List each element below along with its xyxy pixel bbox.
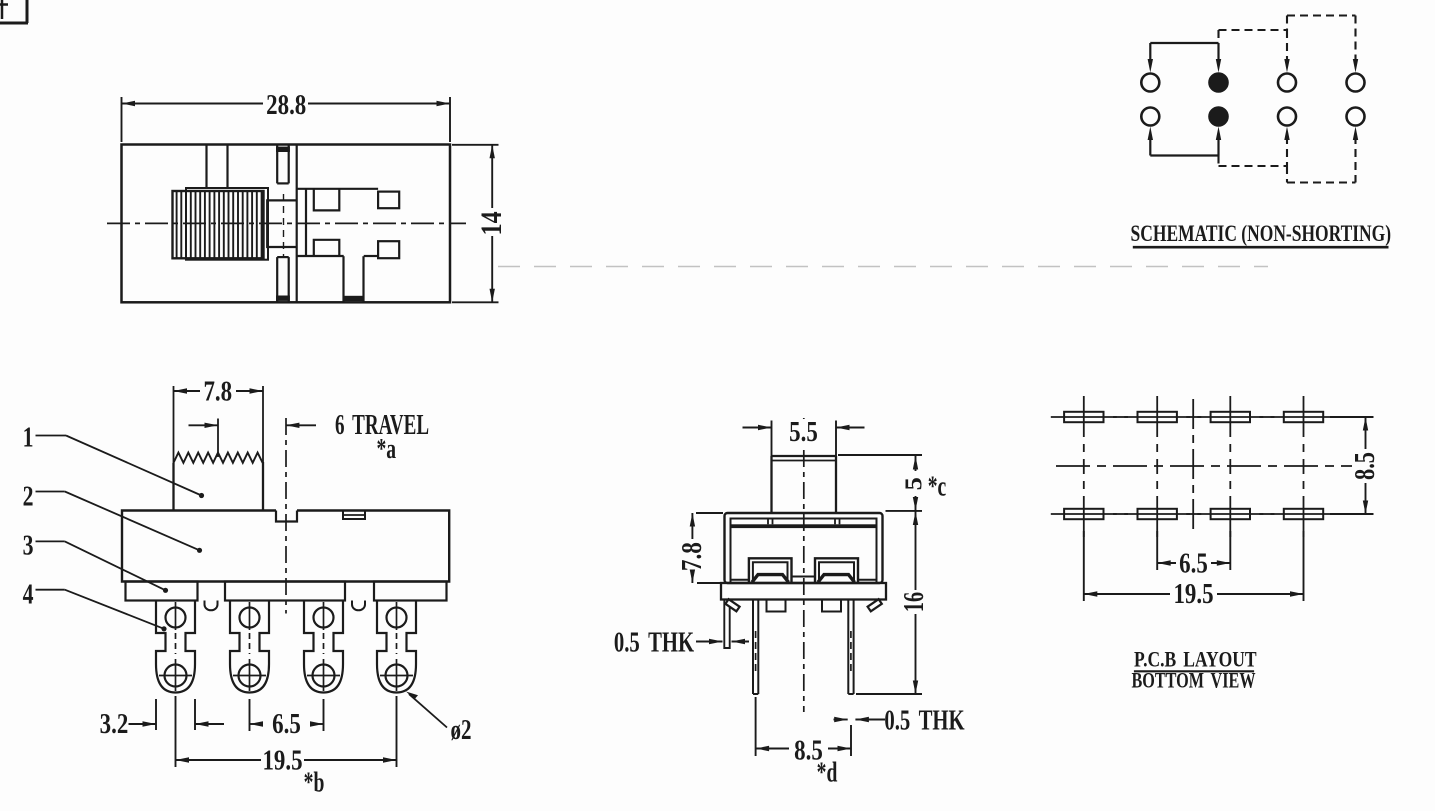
svg-text:19.5: 19.5: [262, 744, 302, 776]
front view: knob sides / extension lines: [174, 386, 264, 511]
side view: contact chamber right: [815, 558, 858, 582]
svg-text:*c: *c: [928, 471, 947, 502]
svg-text:28.8: 28.8: [266, 89, 306, 121]
pcb column 1 centerline: [1083, 396, 1085, 537]
dimension 19.5 (front): [176, 696, 397, 799]
front view: locating peg left: [205, 601, 218, 611]
schematic contact: terminal 4B: [1347, 108, 1365, 126]
side view: contact base bridge: [731, 577, 876, 580]
schematic: dashed position box 1: [1219, 30, 1290, 166]
top view: weld bar stem: [345, 296, 363, 301]
top view: knob back-plate: [186, 188, 268, 260]
dimension 6.5 (pcb): [1157, 531, 1230, 579]
front view: terminal pin 1: [156, 601, 195, 693]
pcb pad row 1 col 3: [1197, 412, 1263, 422]
pcb pad row 1 col 2: [1124, 412, 1190, 422]
svg-text:1: 1: [23, 421, 34, 454]
schematic contact: common 2B (filled): [1210, 108, 1228, 126]
dimension 14: [452, 145, 507, 302]
schematic: dashed position box 2: [1287, 16, 1358, 183]
dimension diameter 2 leader: [406, 692, 471, 746]
top view: contact carrier rails: [277, 145, 297, 303]
svg-text:*d: *d: [817, 757, 838, 788]
pcb pad row 1 col 1: [1051, 412, 1117, 422]
pcb column 2 centerline: [1156, 396, 1158, 537]
front view: top vent slot: [343, 511, 365, 520]
pcb column 4 centerline: [1303, 396, 1305, 537]
top view: terminal stem: [344, 256, 364, 302]
dimension 28.8: [122, 89, 451, 142]
dimension 7.8 (side): [676, 513, 723, 583]
side view: plastic peg right: [822, 600, 841, 612]
side view: bent foot right: [868, 599, 882, 611]
svg-text:2: 2: [23, 480, 34, 513]
svg-text:8.5: 8.5: [1350, 452, 1381, 480]
side view: vertical centerline: [803, 418, 805, 712]
pcb horizontal axis: [1056, 465, 1352, 467]
top view: horizontal centerline: [107, 222, 466, 224]
front view: terminal pin 4: [377, 601, 416, 693]
pcb layout title: [1131, 648, 1257, 694]
schematic: solid link bottom (pole 2): [1148, 127, 1222, 156]
top view: actuator stem: [207, 145, 228, 189]
pcb pad row 1 col 4: [1271, 412, 1337, 422]
front view: terminal pin 3: [304, 601, 343, 693]
front view: body outline: [122, 511, 449, 582]
top view: knurled knob: [173, 191, 264, 258]
svg-text:ø2: ø2: [451, 715, 472, 746]
svg-text:SCHEMATIC (NON-SHORTING): SCHEMATIC (NON-SHORTING): [1131, 222, 1392, 247]
front view: base flange blocks: [126, 582, 447, 601]
side view: knob: [772, 456, 837, 513]
svg-text:19.5: 19.5: [1173, 577, 1213, 609]
top view: carrier dashed centerline: [283, 194, 285, 256]
svg-text:16: 16: [899, 592, 930, 612]
front view: terminal pin 2: [230, 601, 269, 693]
front view: travel position mark: [217, 419, 219, 458]
side view: pin left: [753, 600, 758, 695]
side view: pin right: [848, 600, 853, 695]
svg-text:5: 5: [901, 477, 927, 490]
side view: metal cover edge: [731, 519, 876, 529]
dimension 5.5: [743, 415, 865, 456]
part label 4 leader: [23, 578, 167, 632]
schematic title: [1131, 222, 1392, 247]
side view: bent foot left: [725, 599, 739, 611]
svg-text:BOTTOM VIEW: BOTTOM VIEW: [1131, 669, 1255, 693]
svg-text:5.5: 5.5: [789, 415, 818, 447]
svg-text:3.2: 3.2: [100, 707, 129, 739]
front view: top center notch: [276, 511, 297, 522]
faint horizontal scan artifact line: [498, 266, 1268, 268]
svg-text:*b: *b: [304, 767, 325, 798]
part label 1 leader: [23, 421, 205, 499]
top view: contact plate cross: [297, 189, 400, 258]
svg-text:0.5 THK: 0.5 THK: [614, 628, 694, 659]
side view: base flange: [721, 583, 886, 600]
side view: body inner wall: [731, 519, 877, 584]
dimension 7.8 (front): [174, 375, 264, 407]
schematic contact: terminal 3A: [1278, 74, 1296, 92]
svg-text:6.5: 6.5: [1179, 547, 1208, 579]
front view: knob serrated top: [174, 453, 263, 463]
schematic contact: terminal 4A: [1347, 74, 1365, 92]
top view: weld bar top: [276, 147, 290, 152]
dimension 3.2: [100, 699, 224, 740]
side view: contact chamber left: [749, 558, 792, 582]
top view: slider coupling bracket: [267, 200, 297, 247]
svg-text:*a: *a: [377, 434, 397, 465]
front view: vertical centerline: [285, 418, 287, 614]
schematic: solid link top (pole 1): [1148, 43, 1222, 73]
svg-text:7.8: 7.8: [676, 542, 708, 571]
dimension 8.5 (pcb): [1330, 417, 1381, 514]
dimension 0.5 THK left: [614, 628, 749, 659]
dimension 16: [856, 511, 930, 694]
dimension 6.5 (front): [250, 699, 324, 740]
svg-text:4: 4: [23, 578, 34, 611]
schematic contact: terminal 1B: [1141, 108, 1159, 126]
pcb pad row 2 axis gap dashes: [1113, 513, 1274, 515]
pcb central vertical axis: [1192, 399, 1194, 531]
pcb pad row 1 axis gap dashes: [1113, 416, 1274, 418]
dimension 19.5 (pcb): [1084, 531, 1304, 610]
pcb pad row 2 col 1: [1051, 509, 1117, 519]
dimension 0.5 THK right: [834, 706, 965, 737]
pcb pad row 2 col 2: [1124, 509, 1190, 519]
svg-text:3: 3: [23, 529, 34, 562]
side view: plastic peg left: [767, 600, 786, 612]
dimension 5 *c: [838, 455, 946, 511]
side view: frame tab 0.5 thk: [724, 600, 729, 649]
pcb column 3 centerline: [1229, 396, 1231, 537]
svg-text:0.5 THK: 0.5 THK: [884, 706, 964, 737]
dimension 6 TRAVEL: [189, 410, 430, 465]
schematic contact: terminal 3B: [1278, 108, 1296, 126]
drawing border corner box: [0, 0, 28, 23]
top view: weld bar bottom: [276, 296, 290, 301]
svg-text:6.5: 6.5: [272, 707, 301, 739]
top view: body outline: [122, 145, 451, 303]
svg-text:14: 14: [474, 211, 507, 235]
schematic contact: common 2A (filled): [1210, 74, 1228, 92]
side view: body outer shell: [725, 513, 883, 583]
front view: locating peg right: [352, 601, 365, 611]
part label 3 leader: [23, 529, 169, 593]
schematic contact: terminal 1A: [1141, 74, 1159, 92]
pcb pad row 2 col 3: [1197, 509, 1263, 519]
pcb pad row 2 col 4: [1271, 509, 1337, 519]
part label 2 leader: [23, 480, 203, 553]
svg-text:7.8: 7.8: [203, 375, 232, 407]
dimension 8.5 (side): [756, 697, 851, 789]
